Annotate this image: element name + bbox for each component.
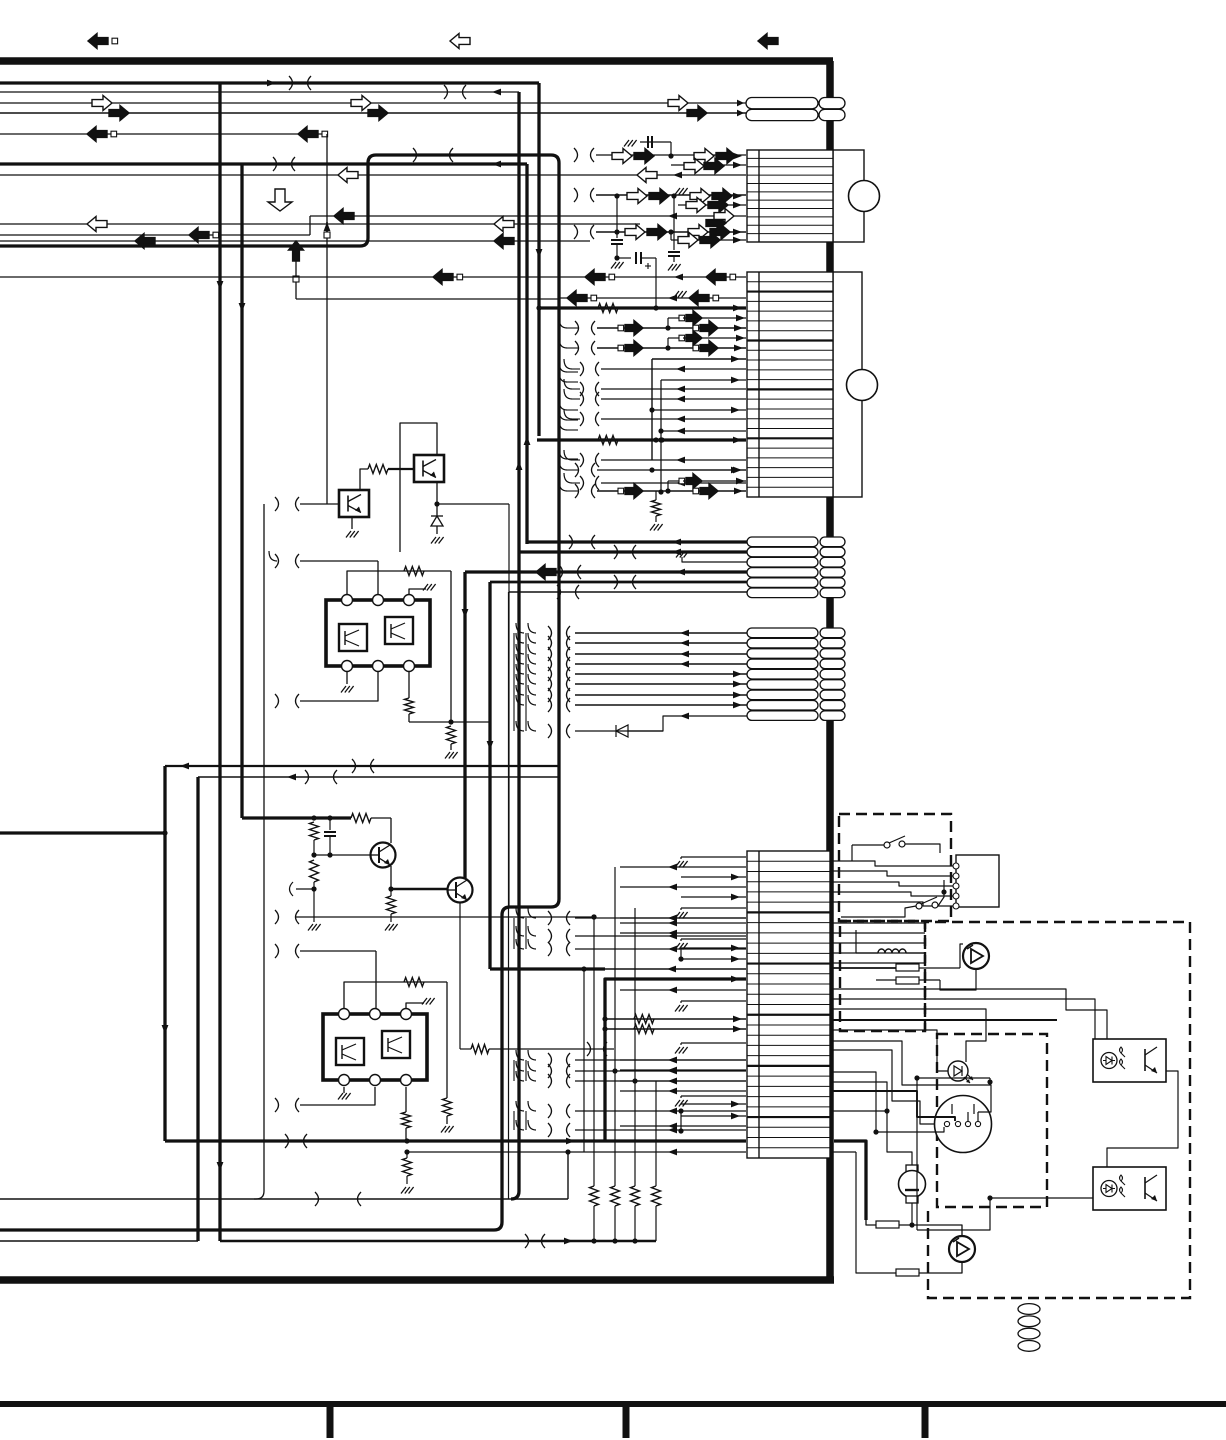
photo interrupter PH2 bbox=[1093, 1167, 1166, 1210]
photocoupler PC2 bbox=[339, 490, 369, 517]
wire RY2 pin5 bbox=[300, 1087, 375, 1105]
footer tick 3 bbox=[922, 1404, 929, 1438]
wire bus y113 to CN5 bbox=[0, 112, 746, 114]
dashed box MAIN (off-board unit) bbox=[925, 922, 1190, 1298]
resistors R1-R4 columns bbox=[593, 917, 595, 1186]
collector Q2 thick from pill row4 bbox=[463, 572, 466, 878]
connector CN1 body bbox=[833, 150, 864, 242]
photocoupler PC1 bbox=[360, 469, 368, 491]
wire bus y164 bbox=[0, 162, 527, 165]
wire vertical x539 bbox=[537, 83, 540, 436]
ground RY2 pin3 bbox=[406, 1003, 424, 1009]
photo interrupter PH1 bbox=[1093, 1039, 1166, 1082]
connector J1 box bbox=[956, 855, 999, 907]
wire vertical x242 bbox=[240, 164, 243, 818]
resistor R12 bbox=[310, 822, 319, 840]
wire bus y237 bbox=[0, 240, 590, 242]
ground below PC2 bbox=[351, 517, 353, 529]
capacitor C5 bbox=[670, 232, 672, 250]
resistor R16 to ground bbox=[406, 1152, 408, 1158]
connector CN2 body bbox=[833, 272, 862, 497]
wire vertical x264 bbox=[254, 504, 264, 1199]
diode D1 node bbox=[436, 482, 438, 504]
connector CN7 pills bbox=[747, 628, 818, 638]
resistor R14 below RY2 bbox=[405, 1087, 407, 1112]
connector CN5 pills bbox=[746, 98, 818, 109]
sensor wires bbox=[1166, 920, 1178, 1060]
wire L x605 bbox=[605, 979, 746, 1141]
wire vertical x165 bbox=[163, 766, 166, 1141]
emitter Q1 to ground bbox=[390, 866, 392, 889]
wire vertical x220 bbox=[218, 83, 221, 1241]
wire y1199 bbox=[0, 1198, 568, 1200]
connector CN1 ring bbox=[849, 181, 880, 212]
up arrow node x296 bbox=[295, 261, 297, 299]
wires CN3 to right bbox=[830, 861, 953, 866]
fuse F4 bbox=[896, 1269, 919, 1276]
signal arrow top-right bbox=[758, 34, 778, 49]
signal arrow top-middle bbox=[450, 34, 470, 49]
footer divider line bbox=[0, 1401, 1226, 1407]
dashed box INNER bbox=[937, 1034, 1047, 1207]
CN2 loop wires bbox=[651, 359, 653, 460]
wire y1241 right segment bbox=[220, 1240, 656, 1243]
wire PH1 right loop bbox=[1107, 1071, 1178, 1167]
wire vertical x490 thick bbox=[488, 582, 491, 969]
connector CN2 ring bbox=[847, 370, 878, 401]
page border top bbox=[0, 57, 833, 65]
inductor L1 bbox=[856, 952, 878, 954]
diode D2 bbox=[616, 725, 628, 737]
footer tick 1 bbox=[327, 1404, 334, 1438]
wire bus y224 bbox=[0, 223, 640, 225]
wire bus y175 to CN1 bbox=[0, 174, 746, 176]
wires CN3 lower to sensors bbox=[830, 999, 1095, 1058]
capacitor C4 electrolytic bbox=[617, 257, 631, 259]
resistor R15 bbox=[443, 1098, 452, 1116]
switch SW2 bbox=[916, 903, 922, 909]
relay module RY2 bbox=[323, 1014, 427, 1080]
wire bus y103 to CN5 bbox=[0, 102, 746, 104]
signal arrow top-left bbox=[88, 34, 108, 49]
wire x584 vertical bbox=[583, 969, 585, 1152]
wire bus y216 bbox=[310, 215, 746, 217]
motor M1 (fan) bbox=[963, 943, 989, 969]
dashed box DSW bbox=[839, 814, 951, 921]
wire vertical x519 bbox=[511, 92, 519, 1199]
connector CN6 pills bbox=[747, 537, 818, 547]
wire to RY2 bbox=[300, 950, 376, 952]
ground RY1 pin3 bbox=[409, 589, 426, 595]
page border bottom bbox=[0, 1276, 834, 1284]
wire y777 bbox=[198, 776, 560, 778]
transistor Q2 bbox=[448, 878, 473, 903]
wire vertical x509 bbox=[508, 504, 510, 908]
LED D5 bbox=[830, 1030, 948, 1071]
ground RY2 pin4 bbox=[343, 1087, 345, 1093]
hook bundle CN7 bbox=[513, 633, 515, 731]
wire loop above PC1 bbox=[400, 423, 437, 552]
wires into CN7 bbox=[575, 632, 747, 634]
fuse F1 bbox=[896, 964, 919, 971]
footer tick 2 bbox=[623, 1404, 630, 1438]
wires CN3 to off-board mid bbox=[830, 922, 925, 924]
fuse F3 bbox=[876, 1221, 899, 1228]
hook bundle CN3 bbox=[513, 918, 515, 949]
motor M3 (stepper) bbox=[935, 1096, 992, 1153]
resistor R11 bbox=[447, 726, 456, 744]
capacitor C10 bbox=[329, 818, 331, 830]
wire vertical x327 bbox=[326, 134, 328, 504]
wire bus y83 bbox=[0, 81, 539, 84]
thick wire CN3 bottom to motor circuit bbox=[834, 1141, 866, 1220]
wires into CN6 bbox=[527, 540, 747, 543]
wire vertical x198 bbox=[196, 777, 199, 1241]
wire y766 bbox=[165, 765, 560, 767]
wires into CN1 bbox=[596, 154, 746, 156]
connector tail ovals bbox=[1018, 1304, 1040, 1315]
capacitor C3 bbox=[616, 196, 618, 238]
white down arrow bbox=[268, 189, 292, 211]
wires into CN3 left bbox=[575, 917, 746, 919]
fuse F2 bbox=[896, 977, 919, 984]
wire y1152 row bbox=[407, 1151, 746, 1153]
page border right bbox=[826, 61, 834, 1280]
wire bus y134 bbox=[0, 133, 327, 135]
resistor R13 bbox=[310, 860, 319, 882]
node y855 bbox=[313, 840, 315, 855]
motor M4 bbox=[949, 1236, 975, 1262]
wire Q1 to Q2 bbox=[391, 888, 447, 891]
resistor pair rows bbox=[605, 1018, 746, 1020]
wire vertical x527 bbox=[525, 164, 528, 544]
hook bundle CN2 bbox=[559, 318, 567, 328]
switch SW1 bbox=[884, 842, 890, 848]
dashed box DPS (power sub-box) bbox=[840, 921, 925, 1031]
wire thick y1141 to CN3 bbox=[165, 1139, 746, 1142]
capacitor C2 top bbox=[596, 194, 746, 196]
wire vertical x508 bbox=[508, 592, 510, 1199]
wire RY1 pin5 bbox=[300, 671, 378, 701]
wires into CN2 bbox=[0, 276, 746, 278]
wire y504 to PC2 bbox=[300, 503, 339, 505]
emitter Q2 down bbox=[459, 902, 461, 1049]
transistor Q1 bbox=[371, 843, 396, 868]
ground RY1 pin4 bbox=[346, 671, 348, 684]
wire bus y92 bbox=[0, 91, 519, 93]
resistor R10 below RY1 bbox=[408, 671, 410, 698]
relay module RY1 bbox=[300, 560, 378, 562]
wire W1 top loop bbox=[0, 155, 559, 1230]
wire thick y818 bbox=[242, 816, 351, 819]
motor M2 (DC) bbox=[830, 1082, 887, 1111]
wire y1241 left segment bbox=[0, 1240, 198, 1242]
wire y833 from edge bbox=[0, 831, 165, 834]
connector CN3 body bbox=[747, 851, 830, 1158]
wires into stepper bbox=[830, 1091, 955, 1121]
resistor R20 to ground bbox=[655, 491, 657, 500]
wire y917 long bbox=[296, 916, 594, 918]
